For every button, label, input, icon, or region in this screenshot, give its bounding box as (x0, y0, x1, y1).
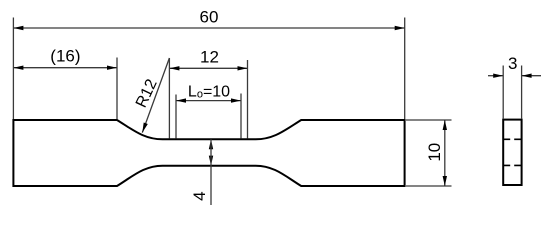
dimension 60: right extension line (404, 18, 406, 120)
dimension 60: dimension line (13, 27, 404, 29)
dimension L0=10: left extension line (175, 95, 177, 139)
dimension 60: left extension line (12, 18, 14, 120)
svg-text:Lo=10: Lo=10 (188, 83, 230, 100)
svg-text:60: 60 (200, 8, 219, 27)
dimension 3: right dimension line segment (522, 75, 541, 77)
dimension 10: bottom arrowhead (443, 176, 447, 186)
svg-text:10: 10 (425, 143, 444, 162)
dimension (16): right arrowhead (107, 66, 117, 70)
specimen outline (dog-bone front view) (13, 120, 404, 186)
svg-text:(16): (16) (50, 47, 80, 66)
dimension (16): left arrowhead (13, 66, 23, 70)
radius R12: arrowhead (142, 123, 148, 133)
side view body (503, 120, 521, 185)
dimension (16): dimension line (13, 67, 117, 69)
dimension 12: left arrowhead (169, 66, 179, 70)
dimension L0=10: dimension line (176, 100, 241, 102)
dimension 60: left arrowhead (13, 26, 23, 30)
dimension 3: right extension line (521, 66, 523, 120)
dimension 12: left extension line (168, 58, 170, 139)
dimension 10: top arrowhead (443, 120, 447, 130)
dimension 10: dimension line (444, 120, 446, 186)
dimension 12: right extension line (247, 60, 249, 139)
dimension 3: left dimension line segment (488, 75, 503, 77)
dimension 10: bottom extension line (406, 185, 452, 187)
dimension 60: right arrowhead (395, 26, 405, 30)
dimension 12: dimension line (169, 67, 247, 69)
dimension 10: top extension line (406, 119, 452, 121)
side view hidden line lower (503, 164, 521, 166)
dimension 3: left arrowhead (493, 74, 503, 78)
dimension L0=10: right arrowhead (231, 98, 241, 102)
svg-text:3: 3 (508, 54, 517, 73)
svg-text:12: 12 (200, 48, 219, 67)
radius R12: leader line (142, 58, 169, 133)
side view hidden line upper (503, 138, 521, 140)
dimension 12: right arrowhead (238, 66, 248, 70)
dimension (16): right extension line (116, 58, 118, 120)
dimension L0=10: left arrowhead (176, 98, 186, 102)
svg-text:4: 4 (190, 191, 209, 200)
dimension 4: lower arrowhead (209, 156, 213, 166)
dimension 3: right arrowhead (522, 74, 532, 78)
dimension 4: upper arrowhead (209, 139, 213, 149)
dimension 3: left extension line (502, 66, 504, 120)
dimension 4: dimension line (210, 139, 212, 205)
dimension L0=10: right extension line (240, 94, 242, 139)
